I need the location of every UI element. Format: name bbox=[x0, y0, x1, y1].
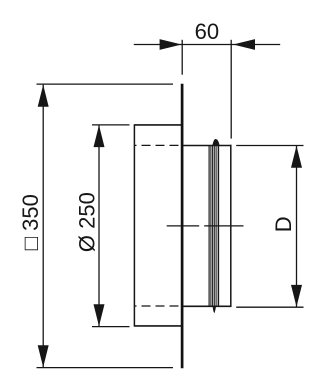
svg-text:60: 60 bbox=[195, 19, 219, 44]
svg-text:D: D bbox=[271, 216, 296, 232]
svg-text:□ 350: □ 350 bbox=[18, 194, 43, 250]
svg-text:Ø 250: Ø 250 bbox=[74, 192, 99, 252]
